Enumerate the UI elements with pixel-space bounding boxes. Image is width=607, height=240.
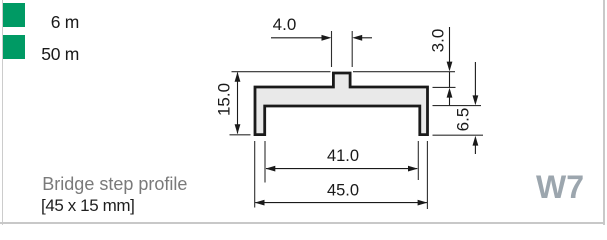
caption: Bridge step profile: [42, 175, 187, 193]
bottom page rule: [0, 222, 605, 224]
svg-text:4.0: 4.0: [273, 15, 297, 34]
extension line: leg-bottom level left (15.0 bottom reference): [230, 134, 251, 136]
dimension 45.0: line with arrows both ends: [255, 202, 427, 204]
dimension 6.5: lower leader with up arrow: [473, 136, 479, 146]
extension line: rib-top level right segment (3.0 top reference): [353, 71, 455, 73]
extension line: leg-bottom level right (6.5 bottom reference): [433, 134, 484, 136]
dimension 4.0: right leader with arrow: [362, 37, 372, 39]
green legend square 2 (50 m): [3, 35, 25, 59]
extension line: outer left leg (45.0): [254, 141, 256, 208]
dimension 3.0: crossing segment: [449, 72, 451, 87]
extension line: rib right edge (4.0): [351, 31, 353, 67]
left page rule: [2, 0, 3, 225]
dimension 15.0: line with arrows both ends: [237, 73, 239, 134]
svg-text:41.0: 41.0: [327, 147, 359, 165]
extension line: rib left edge (4.0): [331, 31, 333, 67]
extension line: rib-top level left segment (15.0 top reference): [232, 71, 331, 73]
designator W7: [536, 171, 584, 203]
extension line: plate-top level right (3.0 bottom reference): [433, 86, 456, 88]
extension line: outer right leg (45.0): [426, 141, 428, 209]
caption: [45 x 15 mm]: [41, 197, 134, 214]
svg-text:45.0: 45.0: [327, 182, 359, 200]
svg-text:6.5: 6.5: [454, 108, 473, 132]
right page rule: [603, 0, 605, 225]
dimension 3.0: upper leader with down arrow: [449, 27, 451, 62]
svg-text:15.0: 15.0: [215, 83, 234, 116]
dimension 41.0: line with arrows both ends: [266, 168, 417, 170]
dimension 4.0: left leader with arrow: [271, 37, 322, 39]
dimension 3.0: lower leader with up arrow: [447, 88, 453, 98]
extension line: inner left leg (41.0): [264, 141, 266, 183]
green legend square 1 (6 m): [3, 3, 25, 27]
label 50 m: [30, 46, 79, 64]
dimension 6.5: upper leader with down arrow: [474, 62, 476, 96]
extension line: inner right leg (41.0): [417, 141, 419, 180]
svg-text:3.0: 3.0: [429, 29, 448, 53]
profile cross-section (45 x 15 channel with top rib): [255, 73, 428, 135]
extension line: web underside right (6.5 top reference): [433, 105, 482, 107]
label 6 m: [30, 14, 79, 32]
